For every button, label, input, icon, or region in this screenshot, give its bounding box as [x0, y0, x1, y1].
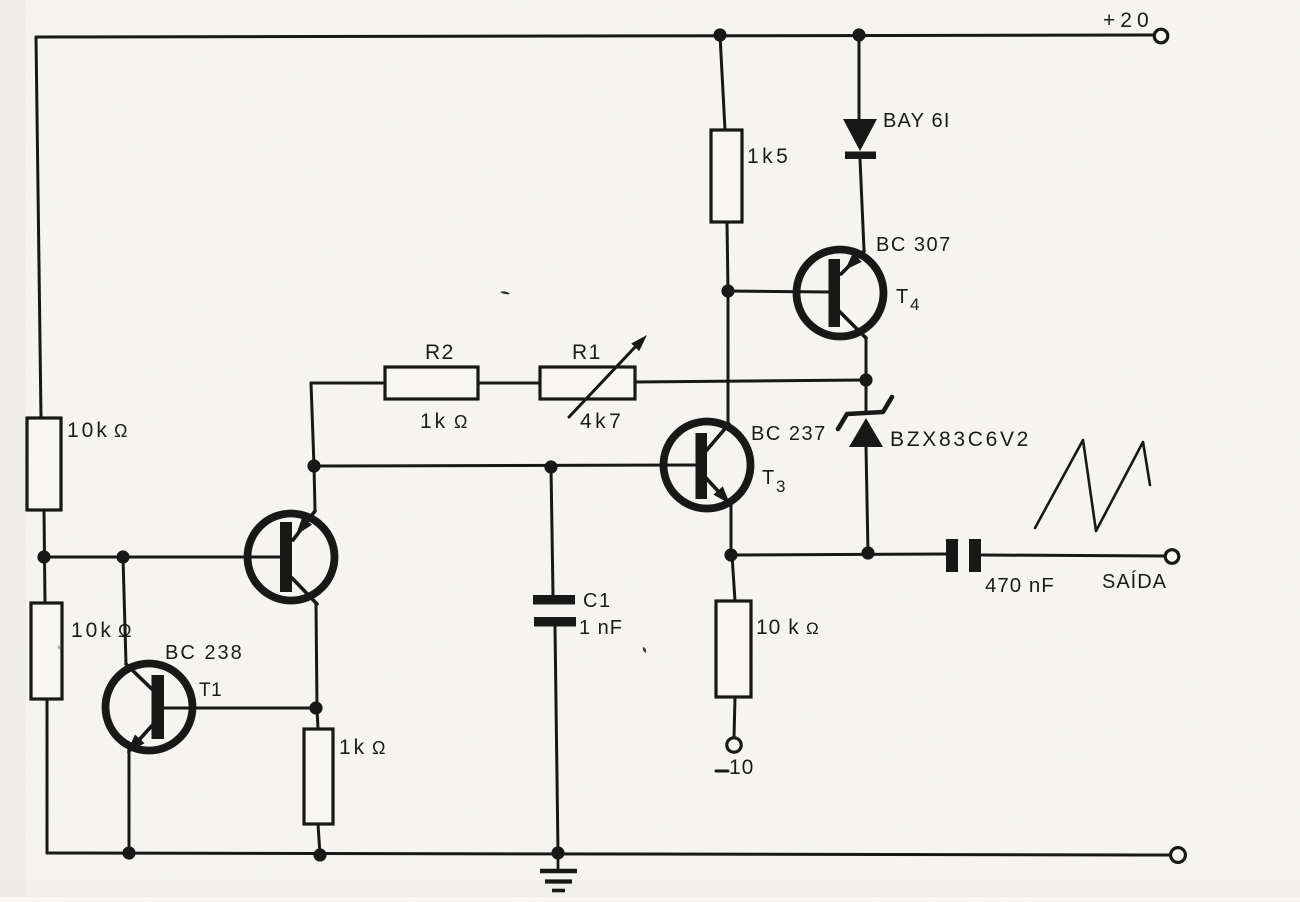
- svg-text:1k5: 1k5: [747, 145, 791, 168]
- svg-text:4: 4: [910, 295, 919, 314]
- svg-text:Ω: Ω: [114, 421, 127, 441]
- svg-text:10k: 10k: [67, 419, 110, 442]
- svg-text:1 nF: 1 nF: [579, 617, 623, 639]
- svg-text:R2: R2: [425, 341, 455, 364]
- svg-text:Ω: Ω: [806, 619, 819, 638]
- svg-text:+20: +20: [1103, 9, 1154, 32]
- svg-text:R1: R1: [572, 341, 602, 364]
- svg-text:SAÍDA: SAÍDA: [1102, 570, 1167, 593]
- svg-text:Ω: Ω: [454, 412, 467, 432]
- svg-text:1k: 1k: [420, 410, 448, 433]
- svg-text:BC 237: BC 237: [751, 423, 827, 445]
- svg-text:T: T: [762, 467, 774, 489]
- svg-text:BC 238: BC 238: [165, 642, 244, 664]
- svg-text:BAY 6I: BAY 6I: [883, 110, 951, 132]
- svg-text:1k: 1k: [339, 736, 367, 759]
- svg-text:BC 307: BC 307: [876, 234, 952, 256]
- svg-text:3: 3: [776, 477, 785, 496]
- svg-text:4k7: 4k7: [580, 410, 624, 433]
- svg-text:C1: C1: [583, 590, 612, 612]
- svg-text:Ω: Ω: [118, 621, 131, 641]
- svg-text:470 nF: 470 nF: [985, 574, 1055, 597]
- svg-text:10 k: 10 k: [756, 616, 800, 639]
- svg-text:10: 10: [729, 756, 754, 779]
- svg-text:Ω: Ω: [372, 738, 385, 758]
- svg-text:T1: T1: [199, 680, 222, 701]
- svg-text:10k: 10k: [71, 619, 114, 642]
- svg-text:BZX83C6V2: BZX83C6V2: [890, 428, 1031, 451]
- svg-text:T: T: [896, 286, 908, 308]
